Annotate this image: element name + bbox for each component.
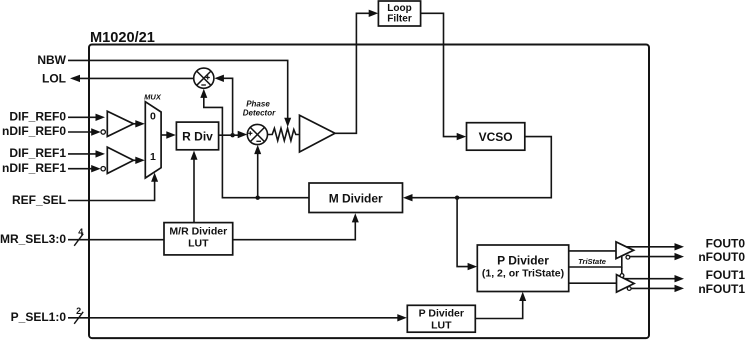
wire R Div output to phase detector bbox=[219, 131, 248, 138]
svg-text:P Divider: P Divider bbox=[419, 307, 464, 319]
svg-text:LOL: LOL bbox=[42, 72, 66, 86]
svg-text:Filter: Filter bbox=[387, 14, 412, 25]
bus slash 4 on MR_SEL bbox=[74, 227, 83, 246]
svg-text:FOUT0: FOUT0 bbox=[706, 237, 746, 251]
svg-text:REF_SEL: REF_SEL bbox=[12, 193, 66, 207]
output buffer U4 (FOUT1 pair) bbox=[617, 275, 635, 293]
wire FOUT0 bbox=[626, 243, 684, 250]
wire amp output to Loop Filter bbox=[335, 10, 378, 134]
svg-text:4: 4 bbox=[78, 227, 83, 237]
svg-text:nFOUT1: nFOUT1 bbox=[698, 282, 745, 296]
wire nFOUT0 bbox=[630, 253, 684, 260]
svg-text:MR_SEL3:0: MR_SEL3:0 bbox=[0, 232, 66, 246]
svg-text:TriState: TriState bbox=[578, 257, 606, 266]
svg-text:Loop: Loop bbox=[387, 3, 411, 14]
wire nFOUT1 bbox=[631, 285, 684, 292]
svg-text:nDIF_REF1: nDIF_REF1 bbox=[2, 161, 66, 175]
wire LOL output from lock-detect mixer bbox=[70, 75, 194, 82]
svg-text:Detector: Detector bbox=[243, 109, 276, 118]
MUX bbox=[145, 102, 161, 178]
svg-text:nDIF_REF0: nDIF_REF0 bbox=[2, 124, 66, 138]
wire REF_SEL to MUX select bbox=[68, 173, 158, 201]
R Div box bbox=[176, 122, 218, 150]
input buffer U2 (DIF_REF1 pair) bbox=[107, 147, 133, 173]
wire TriState enable bbox=[569, 257, 622, 268]
svg-text:Phase: Phase bbox=[246, 100, 270, 109]
output buffer U3 (FOUT0 pair) bbox=[616, 242, 634, 259]
svg-text:R Div: R Div bbox=[182, 129, 213, 143]
Loop Filter box bbox=[378, 1, 420, 26]
inverted output bubble on U3 bbox=[626, 255, 630, 259]
wire TriState enable down branch bbox=[621, 267, 623, 274]
M Divider box bbox=[309, 183, 403, 213]
wire P Divider LUT to P Divider bbox=[475, 292, 526, 319]
wire nDIF_REF0 bbox=[68, 128, 101, 135]
wire NBW to loop resistor bbox=[68, 60, 291, 127]
wire nDIF_REF1 bbox=[68, 165, 101, 172]
wire FOUT1 bbox=[625, 275, 684, 282]
phase detector mixer circle bbox=[247, 124, 267, 144]
wire M feedback branch to phase detector bottom bbox=[254, 145, 261, 198]
svg-text:0: 0 bbox=[150, 111, 156, 123]
svg-text:FOUT1: FOUT1 bbox=[706, 268, 746, 282]
svg-text:1: 1 bbox=[150, 151, 156, 163]
lock-detect mixer circle bbox=[194, 68, 214, 88]
inverting bubble on U2 bbox=[101, 167, 105, 171]
wire DIF_REF1 bbox=[68, 150, 105, 157]
op-amp loop amplifier bbox=[300, 115, 336, 152]
tristate enable bubble on U4 bbox=[620, 274, 624, 278]
bus slash 2 on P_SEL bbox=[74, 306, 83, 324]
wire VCSO output to M Divider bbox=[403, 137, 551, 202]
svg-text:M1020/21: M1020/21 bbox=[90, 30, 155, 46]
svg-text:P_SEL1:0: P_SEL1:0 bbox=[11, 310, 67, 324]
svg-text:nFOUT0: nFOUT0 bbox=[698, 250, 745, 264]
node junction VCSO feedback to P Divider bbox=[455, 196, 459, 200]
resistor (loop filter R, NBW controlled) bbox=[268, 128, 300, 140]
input buffer U1 (DIF_REF0 pair) bbox=[107, 111, 133, 136]
wire DIF_REF0 bbox=[68, 114, 105, 121]
node junction on R Div output bbox=[230, 133, 234, 137]
wire U1 output to MUX input 0 bbox=[134, 120, 145, 127]
wire M feedback to mixer bottom input bbox=[200, 89, 309, 198]
svg-text:M/R Divider: M/R Divider bbox=[169, 226, 227, 238]
wire Loop Filter to VCSO bbox=[421, 13, 467, 140]
svg-text:P Divider: P Divider bbox=[497, 254, 549, 268]
wire P_SEL bus to P Divider LUT bbox=[68, 314, 407, 321]
svg-text:NBW: NBW bbox=[37, 53, 66, 67]
P Divider LUT box bbox=[407, 305, 475, 332]
wire P Divider out to output buffer A bbox=[569, 250, 616, 252]
svg-text:LUT: LUT bbox=[431, 319, 452, 331]
svg-text:DIF_REF0: DIF_REF0 bbox=[9, 110, 66, 124]
inverted output bubble on U4 bbox=[627, 287, 631, 291]
wire M/R LUT to R Div bbox=[191, 151, 198, 223]
svg-text:(1, 2, or TriState): (1, 2, or TriState) bbox=[482, 268, 564, 280]
node junction on M feedback bbox=[256, 196, 260, 200]
P Divider box bbox=[477, 245, 568, 292]
wire M/R LUT to M Divider bbox=[233, 213, 359, 240]
wire MR_SEL bus to M/R Divider LUT bbox=[68, 239, 164, 241]
VCSO box bbox=[467, 123, 525, 151]
wire U2 output to MUX input 1 bbox=[134, 157, 145, 164]
wire R Div output branch to lock-detect mixer bbox=[214, 75, 232, 136]
svg-text:LUT: LUT bbox=[188, 238, 209, 250]
svg-text:DIF_REF1: DIF_REF1 bbox=[9, 146, 66, 160]
svg-text:M Divider: M Divider bbox=[329, 191, 383, 205]
inverting bubble on U1 bbox=[101, 130, 105, 134]
wire P Divider out to output buffer B bbox=[569, 282, 617, 284]
svg-text:2: 2 bbox=[76, 306, 81, 316]
M/R Divider LUT box bbox=[164, 223, 233, 255]
wire branch to P Divider bbox=[457, 198, 477, 271]
chip boundary box M1020/21 bbox=[89, 45, 649, 339]
wire MUX output to R Div bbox=[161, 131, 176, 138]
svg-text:MUX: MUX bbox=[144, 93, 162, 102]
svg-text:VCSO: VCSO bbox=[479, 130, 513, 144]
